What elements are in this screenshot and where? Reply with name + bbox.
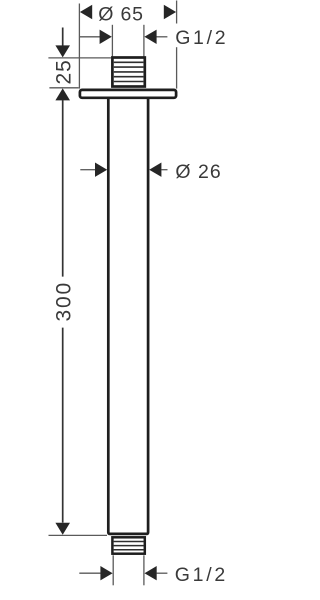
G1/2 top leader right xyxy=(156,36,167,38)
svg-text:25: 25 xyxy=(52,59,75,84)
extension line flange-top level xyxy=(49,87,78,89)
extension line thread-top level xyxy=(48,57,111,59)
thread block bottom (hatched) xyxy=(112,537,144,553)
dim 25: upper tail + down arrow xyxy=(62,28,64,47)
G1/2 bottom leader left xyxy=(79,572,101,574)
pipe body xyxy=(108,99,148,534)
dim 300 bottom down arrow xyxy=(55,523,70,535)
thread block top (hatched) xyxy=(112,58,144,87)
svg-text:Ø 26: Ø 26 xyxy=(175,161,221,183)
dia26 leader right xyxy=(161,169,167,171)
flange (escutcheon) xyxy=(80,90,176,98)
extension line pipe-bottom level xyxy=(49,534,108,536)
dia26 leader left xyxy=(80,169,96,171)
dim 300 line lower segment xyxy=(62,328,64,523)
dim 25: lower arrow (up) shared with 300 top xyxy=(55,88,70,100)
thread hatch lines top xyxy=(114,61,144,63)
extension line left thread top xyxy=(111,25,113,58)
thread hatch lines bottom xyxy=(114,541,144,543)
svg-text:G1/2: G1/2 xyxy=(175,27,228,49)
extension line left of dia65 xyxy=(78,4,80,89)
svg-text:G1/2: G1/2 xyxy=(175,564,228,586)
extension line right of dia65 (gap where G1/2 text crosses) xyxy=(176,1,178,24)
svg-text:300: 300 xyxy=(52,281,75,321)
dia65 arrow right xyxy=(164,5,176,19)
G1/2 bottom leader right xyxy=(157,572,168,574)
extension line right thread top xyxy=(143,25,145,58)
extension line bottom thread left xyxy=(112,555,114,585)
svg-text:Ø 65: Ø 65 xyxy=(98,4,143,26)
dim 300 line upper segment xyxy=(62,100,64,277)
G1/2 top leader left xyxy=(80,36,100,38)
extension line bottom thread right xyxy=(143,555,145,585)
dia65 arrow left xyxy=(80,5,92,19)
